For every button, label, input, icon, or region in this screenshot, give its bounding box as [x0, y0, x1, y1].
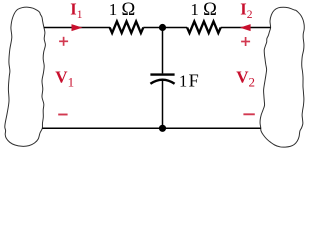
node a (top junction) [159, 24, 166, 31]
wire capacitor bottom lead [162, 80, 164, 128]
node b (bottom junction) [159, 125, 166, 132]
wire capacitor top lead [162, 28, 164, 74]
svg-text:V1: V1 [55, 68, 74, 90]
polarity plus sign (V2) [241, 37, 250, 46]
svg-text:V2: V2 [236, 67, 255, 89]
polarity plus sign (V1) [59, 37, 68, 46]
current arrow I1 (pointing right) [72, 24, 83, 31]
resistor R2 (1 ohm) [187, 21, 221, 33]
wire bottom segment [42, 127, 260, 129]
wire top-left segment [44, 27, 110, 29]
resistor R1 (1 ohm) [110, 21, 144, 33]
svg-text:1 Ω: 1 Ω [109, 0, 136, 20]
wire top-right segment [221, 27, 271, 29]
svg-text:1 Ω: 1 Ω [190, 0, 217, 20]
svg-text:I2: I2 [240, 0, 252, 21]
polarity minus sign (V1) [58, 114, 67, 116]
capacitor C1 (1 F): flat top plate [150, 73, 174, 75]
wire top-middle segment [143, 27, 187, 29]
svg-text:1F: 1F [179, 70, 199, 90]
capacitor C1 (1 F): curved bottom plate [150, 80, 174, 84]
polarity minus sign (V2) [243, 113, 254, 115]
svg-text:I1: I1 [70, 0, 82, 21]
current arrow I2 (pointing left) [240, 24, 251, 31]
left network blob (port 1 source) [5, 7, 46, 146]
right network blob (port 2 load) [260, 7, 304, 147]
